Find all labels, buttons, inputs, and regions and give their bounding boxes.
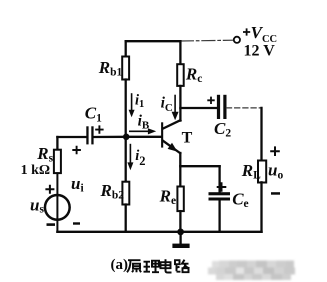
wire emitter branch to Ce xyxy=(180,165,219,167)
svg-text:12 V: 12 V xyxy=(244,42,276,59)
wire top rail from Rb1 to Rc node xyxy=(126,40,181,42)
capacitor C1 plates xyxy=(86,126,93,144)
node emitter ground junction dot xyxy=(177,229,184,236)
svg-text:(a): (a) xyxy=(111,257,129,273)
node Vcc terminal circle xyxy=(234,37,240,43)
svg-text:1 kΩ: 1 kΩ xyxy=(21,163,50,178)
wire bottom ground rail xyxy=(57,231,261,233)
wire Re to ground rail xyxy=(179,211,181,232)
label plus ui xyxy=(72,146,81,155)
source us circle xyxy=(45,195,70,220)
resistor Rb2 xyxy=(122,182,129,205)
glyph li xyxy=(144,260,160,273)
resistor Rb1 xyxy=(122,57,129,80)
wire Rb1 to base node xyxy=(125,80,127,137)
resistor Rs xyxy=(54,150,61,173)
wire Rb2 to ground rail xyxy=(125,205,127,232)
caption Chinese yuan li dian lu hand-drawn glyphs xyxy=(127,259,190,272)
glyph dian xyxy=(161,259,172,272)
capacitor Ce plates xyxy=(209,192,231,200)
transistor T collector lead xyxy=(163,120,181,128)
arrow iC xyxy=(172,96,179,121)
glyph yuan xyxy=(127,260,141,272)
wire C1 input from left rail xyxy=(57,136,86,138)
watermark blur blocks xyxy=(208,261,295,281)
wire dashed C2 to right rail xyxy=(227,107,262,109)
label plus Ce xyxy=(217,182,227,192)
capacitor C2 plates xyxy=(217,95,227,119)
wire Rb1 branch upper xyxy=(125,41,127,56)
label minus us xyxy=(47,223,56,226)
wire collector branch to C2 xyxy=(180,107,217,109)
resistor Rc xyxy=(177,64,184,86)
wire base node to Rb2 xyxy=(125,137,127,182)
label plus C1 xyxy=(95,125,103,133)
wire Rc to collector xyxy=(179,86,181,121)
arrow iB xyxy=(130,128,156,134)
wire Rc branch upper xyxy=(179,41,181,64)
wire Ce branch down to plates xyxy=(218,166,220,192)
label plus C2 xyxy=(207,97,214,104)
wire Ce to ground rail xyxy=(218,201,220,232)
node base junction dot xyxy=(123,134,130,141)
wire Rs through source to ground rail xyxy=(56,173,58,232)
label plus uo xyxy=(270,146,280,156)
label minus ui xyxy=(73,222,80,224)
label +Vcc xyxy=(243,23,277,45)
transistor T emitter lead with arrow xyxy=(163,141,180,154)
wire C1 to base node xyxy=(94,136,127,138)
wire dash-dot from Rc node to Vcc terminal xyxy=(180,39,233,42)
transistor T base bar xyxy=(161,122,163,147)
label plus us xyxy=(45,185,54,194)
wire emitter down to Re xyxy=(179,153,181,187)
glyph lu xyxy=(175,260,190,273)
wire left rail down to Rs xyxy=(56,137,58,150)
resistor RL xyxy=(258,161,266,183)
wire RL to ground rail xyxy=(260,182,262,232)
wire right rail down to RL xyxy=(260,108,262,161)
resistor Re xyxy=(177,187,183,212)
svg-text:T: T xyxy=(182,130,193,147)
arrow i2 xyxy=(127,145,133,171)
label minus uo xyxy=(271,192,280,195)
wire base node to transistor xyxy=(126,136,161,138)
arrow i1 xyxy=(129,94,135,117)
ground symbol xyxy=(172,232,189,248)
